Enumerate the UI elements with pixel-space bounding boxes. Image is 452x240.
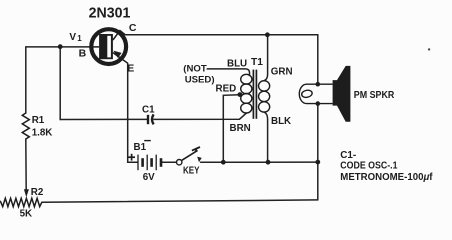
svg-text:BLK: BLK xyxy=(271,116,291,127)
node dot base V1 xyxy=(58,44,63,49)
key switch lever xyxy=(182,150,198,160)
battery plus sign xyxy=(128,154,135,161)
svg-text:V: V xyxy=(69,32,76,43)
wire key line xyxy=(201,161,318,163)
wire left column upper xyxy=(25,47,27,113)
battery B1 plates xyxy=(138,155,161,171)
svg-text:METRONOME-100μf: METRONOME-100μf xyxy=(340,172,433,183)
transformer T1 primary winding loops xyxy=(241,74,252,113)
svg-text:E: E xyxy=(127,62,134,74)
svg-text:B: B xyxy=(79,47,87,59)
svg-text:C1: C1 xyxy=(142,104,155,115)
scan artifact speck top right xyxy=(428,48,430,50)
wire RED tap to key line xyxy=(223,95,240,163)
svg-text:2N301: 2N301 xyxy=(89,6,131,22)
node dot speaker top terminal xyxy=(316,82,321,87)
svg-text:T1: T1 xyxy=(251,57,263,68)
svg-text:5K: 5K xyxy=(20,208,33,219)
svg-text:B1: B1 xyxy=(134,142,147,153)
wire base horizontal xyxy=(26,46,90,48)
wire emitter to battery positive xyxy=(128,161,138,163)
node dot key line speaker junction xyxy=(315,160,320,165)
transformer T1 core xyxy=(253,70,256,119)
svg-text:RED: RED xyxy=(216,84,237,95)
wire GRN tap vertical xyxy=(264,35,268,81)
key switch pivot circle xyxy=(177,160,182,165)
wire BLK tap vertical xyxy=(264,112,268,162)
transistor Q1 2N301 circle xyxy=(91,29,126,64)
capacitor C1 right curved plate xyxy=(152,114,154,124)
speaker voice coil left cap xyxy=(299,84,306,103)
node dot speaker bottom terminal xyxy=(316,101,321,106)
potentiometer R2 wiper arrow xyxy=(24,189,29,197)
wire emitter vertical xyxy=(127,63,129,162)
wire base node vertical xyxy=(59,47,61,120)
wire battery to key xyxy=(161,161,176,163)
transistor Q1 emitter lead xyxy=(113,53,128,64)
speaker PM SPKR body xyxy=(333,66,351,122)
transistor Q1 base lead xyxy=(90,46,99,48)
svg-text:CODE OSC-.1: CODE OSC-.1 xyxy=(340,161,398,172)
speaker voice coil top lead xyxy=(307,83,333,85)
potentiometer R2 zigzag xyxy=(0,198,42,206)
svg-text:USED): USED) xyxy=(185,75,215,86)
speaker voice coil bottom lead xyxy=(307,103,333,105)
resistor R1 zigzag xyxy=(22,113,29,139)
transformer T1 secondary winding loops xyxy=(259,81,270,112)
svg-text:BLU: BLU xyxy=(227,58,247,69)
svg-text:PM SPKR: PM SPKR xyxy=(354,90,395,101)
svg-text:R1: R1 xyxy=(32,115,45,126)
node dot RED center tap xyxy=(238,92,243,97)
node dot key line BLK junction xyxy=(266,160,271,165)
transistor Q1 junction bar xyxy=(99,34,113,59)
svg-text:C: C xyxy=(129,22,137,34)
node dot top rail GRN junction xyxy=(265,32,270,37)
svg-text:GRN: GRN xyxy=(271,67,293,78)
wire C1 to primary bottom BRN tap xyxy=(154,113,247,119)
svg-text:(NOT: (NOT xyxy=(183,63,207,74)
wire bottom rail xyxy=(42,200,318,202)
wire speaker vertical upper xyxy=(317,35,319,84)
key switch contact arrow xyxy=(197,157,202,163)
capacitor C1 left plate xyxy=(147,115,149,124)
svg-text:1.8K: 1.8K xyxy=(32,127,53,138)
wire speaker vertical lower xyxy=(317,104,319,200)
key switch handle stub xyxy=(195,148,196,151)
svg-text:KEY: KEY xyxy=(183,165,200,176)
speaker voice coil loop xyxy=(301,89,313,98)
svg-text:6V: 6V xyxy=(143,172,155,183)
svg-text:1: 1 xyxy=(77,34,82,43)
transistor Q1 emitter arrow (PNP) xyxy=(113,51,121,58)
transistor Q1 collector lead xyxy=(113,31,125,40)
svg-text:R2: R2 xyxy=(31,187,44,198)
wire left column lower to wiper xyxy=(25,139,27,190)
svg-text:BRN: BRN xyxy=(230,123,251,134)
svg-text:C1-: C1- xyxy=(340,150,356,161)
key switch handle knob bar xyxy=(192,147,200,151)
wire top rail collector to speaker xyxy=(125,34,317,36)
node dot key line RED junction xyxy=(221,160,226,165)
battery minus overbar xyxy=(144,140,151,142)
wire BLU tap not-used xyxy=(207,69,249,76)
wire base node to C1 xyxy=(60,118,147,120)
